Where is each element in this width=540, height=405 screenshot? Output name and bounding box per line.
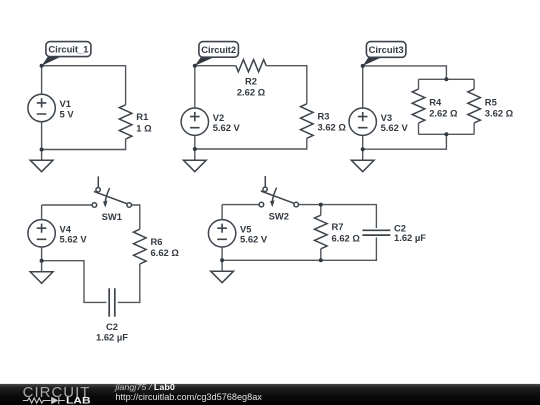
node parallel bottom junction xyxy=(444,132,448,136)
net label Circuit2 xyxy=(195,56,216,65)
svg-text:Circuit3: Circuit3 xyxy=(369,44,404,55)
svg-text:R2: R2 xyxy=(245,76,257,87)
wire ground stub circuit 2 xyxy=(194,149,196,160)
node bottom circuit 3 xyxy=(361,147,365,151)
svg-text:R4: R4 xyxy=(429,97,442,108)
node R7 bottom junction xyxy=(319,258,323,262)
resistor R5 xyxy=(468,89,481,123)
wire R4 bottom lead xyxy=(418,123,420,134)
resistor R1 xyxy=(119,105,132,139)
net label Circuit_1 xyxy=(42,56,63,66)
wire ground stub circuit 4 xyxy=(41,261,43,272)
voltage source V5 xyxy=(208,220,235,247)
voltage source V2 xyxy=(181,108,208,135)
voltage source V3 xyxy=(349,108,376,135)
ground xyxy=(351,160,374,172)
net label Circuit3 xyxy=(363,57,384,66)
wire V5 bottom lead xyxy=(221,247,223,260)
svg-text:R1: R1 xyxy=(136,111,148,122)
wire R6 to C2 xyxy=(118,264,140,302)
capacitor C2 xyxy=(109,288,115,316)
wire R4 top lead xyxy=(418,79,420,89)
node bottom circuit 4 xyxy=(40,259,44,263)
node top circuit 2 xyxy=(193,64,197,68)
node parallel top junction xyxy=(444,77,448,81)
wire V4 top lead xyxy=(41,205,43,220)
svg-text:Circuit2: Circuit2 xyxy=(201,44,236,55)
svg-text:C2: C2 xyxy=(106,321,118,332)
svg-text:1.62 µF: 1.62 µF xyxy=(96,332,128,343)
resistor R2 xyxy=(236,60,266,72)
svg-text:Circuit_1: Circuit_1 xyxy=(48,43,88,54)
node bottom circuit 2 xyxy=(193,147,197,151)
wire bottom of circuit 1 xyxy=(42,139,126,150)
svg-text:SW1: SW1 xyxy=(102,211,122,222)
svg-text:1 Ω: 1 Ω xyxy=(136,122,152,133)
switch SW1 xyxy=(92,176,131,207)
node top circuit 1 xyxy=(40,64,44,68)
ground xyxy=(211,271,234,283)
svg-text:http://circuitlab.com/cg3d5768: http://circuitlab.com/cg3d5768eg8ax xyxy=(115,392,262,402)
wire ground stub circuit 3 xyxy=(362,149,364,160)
wire top-right of circuit 2 xyxy=(266,66,307,104)
capacitor C2 xyxy=(362,230,390,235)
node bottom circuit 1 xyxy=(40,148,44,152)
wire bottom of circuit 3 xyxy=(363,134,447,149)
svg-text:1.62 µF: 1.62 µF xyxy=(394,232,426,243)
wire C2 bottom lead xyxy=(222,237,376,260)
resistor R4 xyxy=(412,89,425,123)
wire V2 bottom lead xyxy=(194,135,196,149)
svg-text:jiangj75 / Lab0: jiangj75 / Lab0 xyxy=(114,382,175,392)
svg-text:R6: R6 xyxy=(151,236,163,247)
wire SW2 to junction xyxy=(299,204,321,206)
wire V2 top lead xyxy=(194,66,196,108)
wire V4 to SW1 xyxy=(42,204,93,206)
svg-text:5.62 V: 5.62 V xyxy=(240,234,268,245)
svg-text:6.62 Ω: 6.62 Ω xyxy=(151,247,180,258)
wire R5 top lead xyxy=(473,79,475,89)
resistor R3 xyxy=(301,104,314,139)
node SW2 R7 junction xyxy=(319,203,323,207)
wire V5 to SW2 xyxy=(222,204,259,206)
wire bottom of circuit 2 xyxy=(195,138,307,149)
wire top of circuit 1 xyxy=(42,66,126,105)
wire parallel bottom bus xyxy=(419,133,475,135)
svg-text:R5: R5 xyxy=(485,97,497,108)
wire V3 bottom lead xyxy=(362,135,364,149)
svg-text:5.62 V: 5.62 V xyxy=(381,122,409,133)
svg-text:SW2: SW2 xyxy=(269,211,289,222)
wire ground stub circuit 5 xyxy=(221,260,223,271)
CircuitLab logo resistor-diode glyph xyxy=(23,397,65,404)
resistor R7 xyxy=(315,215,328,249)
ground xyxy=(30,272,53,284)
wire top of circuit 3 xyxy=(363,66,447,79)
svg-text:3.62 Ω: 3.62 Ω xyxy=(318,122,347,133)
wire R7 bottom lead xyxy=(320,249,322,260)
svg-text:R7: R7 xyxy=(332,221,344,232)
wire V3 top lead xyxy=(362,66,364,108)
ground xyxy=(183,160,206,172)
resistor R6 xyxy=(134,229,147,264)
svg-text:LAB: LAB xyxy=(66,395,91,405)
node bottom circuit 5 xyxy=(220,258,224,262)
svg-text:6.62 Ω: 6.62 Ω xyxy=(332,232,361,243)
wire C2 to node xyxy=(42,261,107,303)
wire R5 bottom lead xyxy=(473,123,475,134)
node top circuit 3 xyxy=(361,64,365,68)
svg-text:R3: R3 xyxy=(318,110,330,121)
svg-text:2.62 Ω: 2.62 Ω xyxy=(237,86,266,97)
wire parallel top bus xyxy=(419,78,475,80)
svg-text:3.62 Ω: 3.62 Ω xyxy=(485,108,514,119)
wire SW1 to R6 xyxy=(132,205,140,229)
svg-text:5.62 V: 5.62 V xyxy=(213,122,241,133)
svg-text:5 V: 5 V xyxy=(60,108,75,119)
wire R7 top lead xyxy=(320,205,322,216)
wire V5 top lead xyxy=(221,205,223,220)
voltage source V4 xyxy=(28,220,55,247)
wire V1 bottom lead xyxy=(41,122,43,150)
footer bar xyxy=(0,384,540,405)
wire V4 bottom lead xyxy=(41,247,43,261)
switch SW2 xyxy=(259,176,298,207)
wire top-left of circuit 2 xyxy=(195,65,236,67)
wire junction to C2 branch xyxy=(321,205,377,228)
wire ground stub circuit 1 xyxy=(41,150,43,161)
svg-text:2.62 Ω: 2.62 Ω xyxy=(429,108,458,119)
ground xyxy=(30,160,53,172)
wire V1 top lead xyxy=(41,66,43,95)
voltage source V1 xyxy=(28,94,55,121)
svg-text:5.62 V: 5.62 V xyxy=(60,234,88,245)
